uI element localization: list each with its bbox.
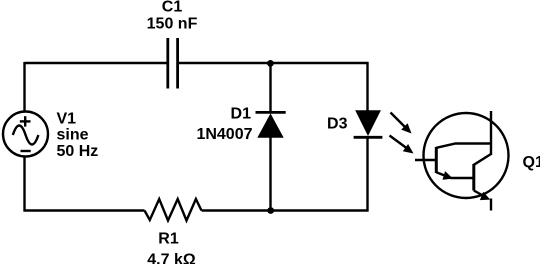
source V1 bbox=[3, 112, 48, 157]
transistor Q1 bbox=[415, 111, 509, 211]
collector lead bbox=[490, 111, 492, 155]
wire D1 branch upper bbox=[269, 63, 271, 113]
svg-text:D1: D1 bbox=[231, 106, 252, 123]
svg-text:C1: C1 bbox=[162, 0, 183, 16]
wire left vertical lower bbox=[23, 155, 25, 212]
svg-text:150 nF: 150 nF bbox=[147, 16, 198, 33]
capacitor C1 bbox=[168, 38, 178, 89]
T1 emitter bbox=[436, 172, 473, 178]
wire right vertical upper bbox=[366, 62, 368, 111]
T1 collector bbox=[436, 144, 491, 148]
wire bottom horizontal left bbox=[24, 209, 145, 211]
base lead bbox=[415, 159, 436, 161]
svg-text:D3: D3 bbox=[327, 116, 348, 133]
emitter lead bbox=[490, 199, 492, 211]
T1 base bar bbox=[435, 147, 438, 173]
svg-text:V1: V1 bbox=[57, 111, 77, 128]
resistor R1 bbox=[145, 199, 202, 221]
T2 base bar bbox=[472, 164, 475, 191]
wire left vertical upper bbox=[23, 62, 25, 113]
svg-text:1N4007: 1N4007 bbox=[196, 126, 252, 143]
LED D3 bbox=[354, 110, 383, 137]
diode D1 bbox=[256, 112, 286, 137]
T2 collector bbox=[474, 154, 491, 165]
svg-text:sine: sine bbox=[57, 127, 89, 144]
wire D1 branch lower bbox=[269, 137, 271, 211]
light arrow upper bbox=[391, 113, 412, 134]
node bottom junction bbox=[267, 207, 274, 214]
svg-text:R1: R1 bbox=[158, 231, 179, 248]
svg-text:50 Hz: 50 Hz bbox=[57, 143, 99, 160]
light arrow lower bbox=[390, 136, 414, 154]
svg-text:4.7 kΩ: 4.7 kΩ bbox=[147, 252, 196, 264]
wire top left horizontal bbox=[25, 62, 168, 64]
wire top right horizontal bbox=[179, 62, 369, 64]
wire right vertical lower bbox=[366, 138, 368, 212]
svg-text:Q1: Q1 bbox=[523, 154, 540, 171]
node top junction bbox=[267, 60, 274, 67]
wire bottom horizontal right bbox=[202, 209, 369, 211]
T2 emitter bbox=[474, 191, 487, 198]
